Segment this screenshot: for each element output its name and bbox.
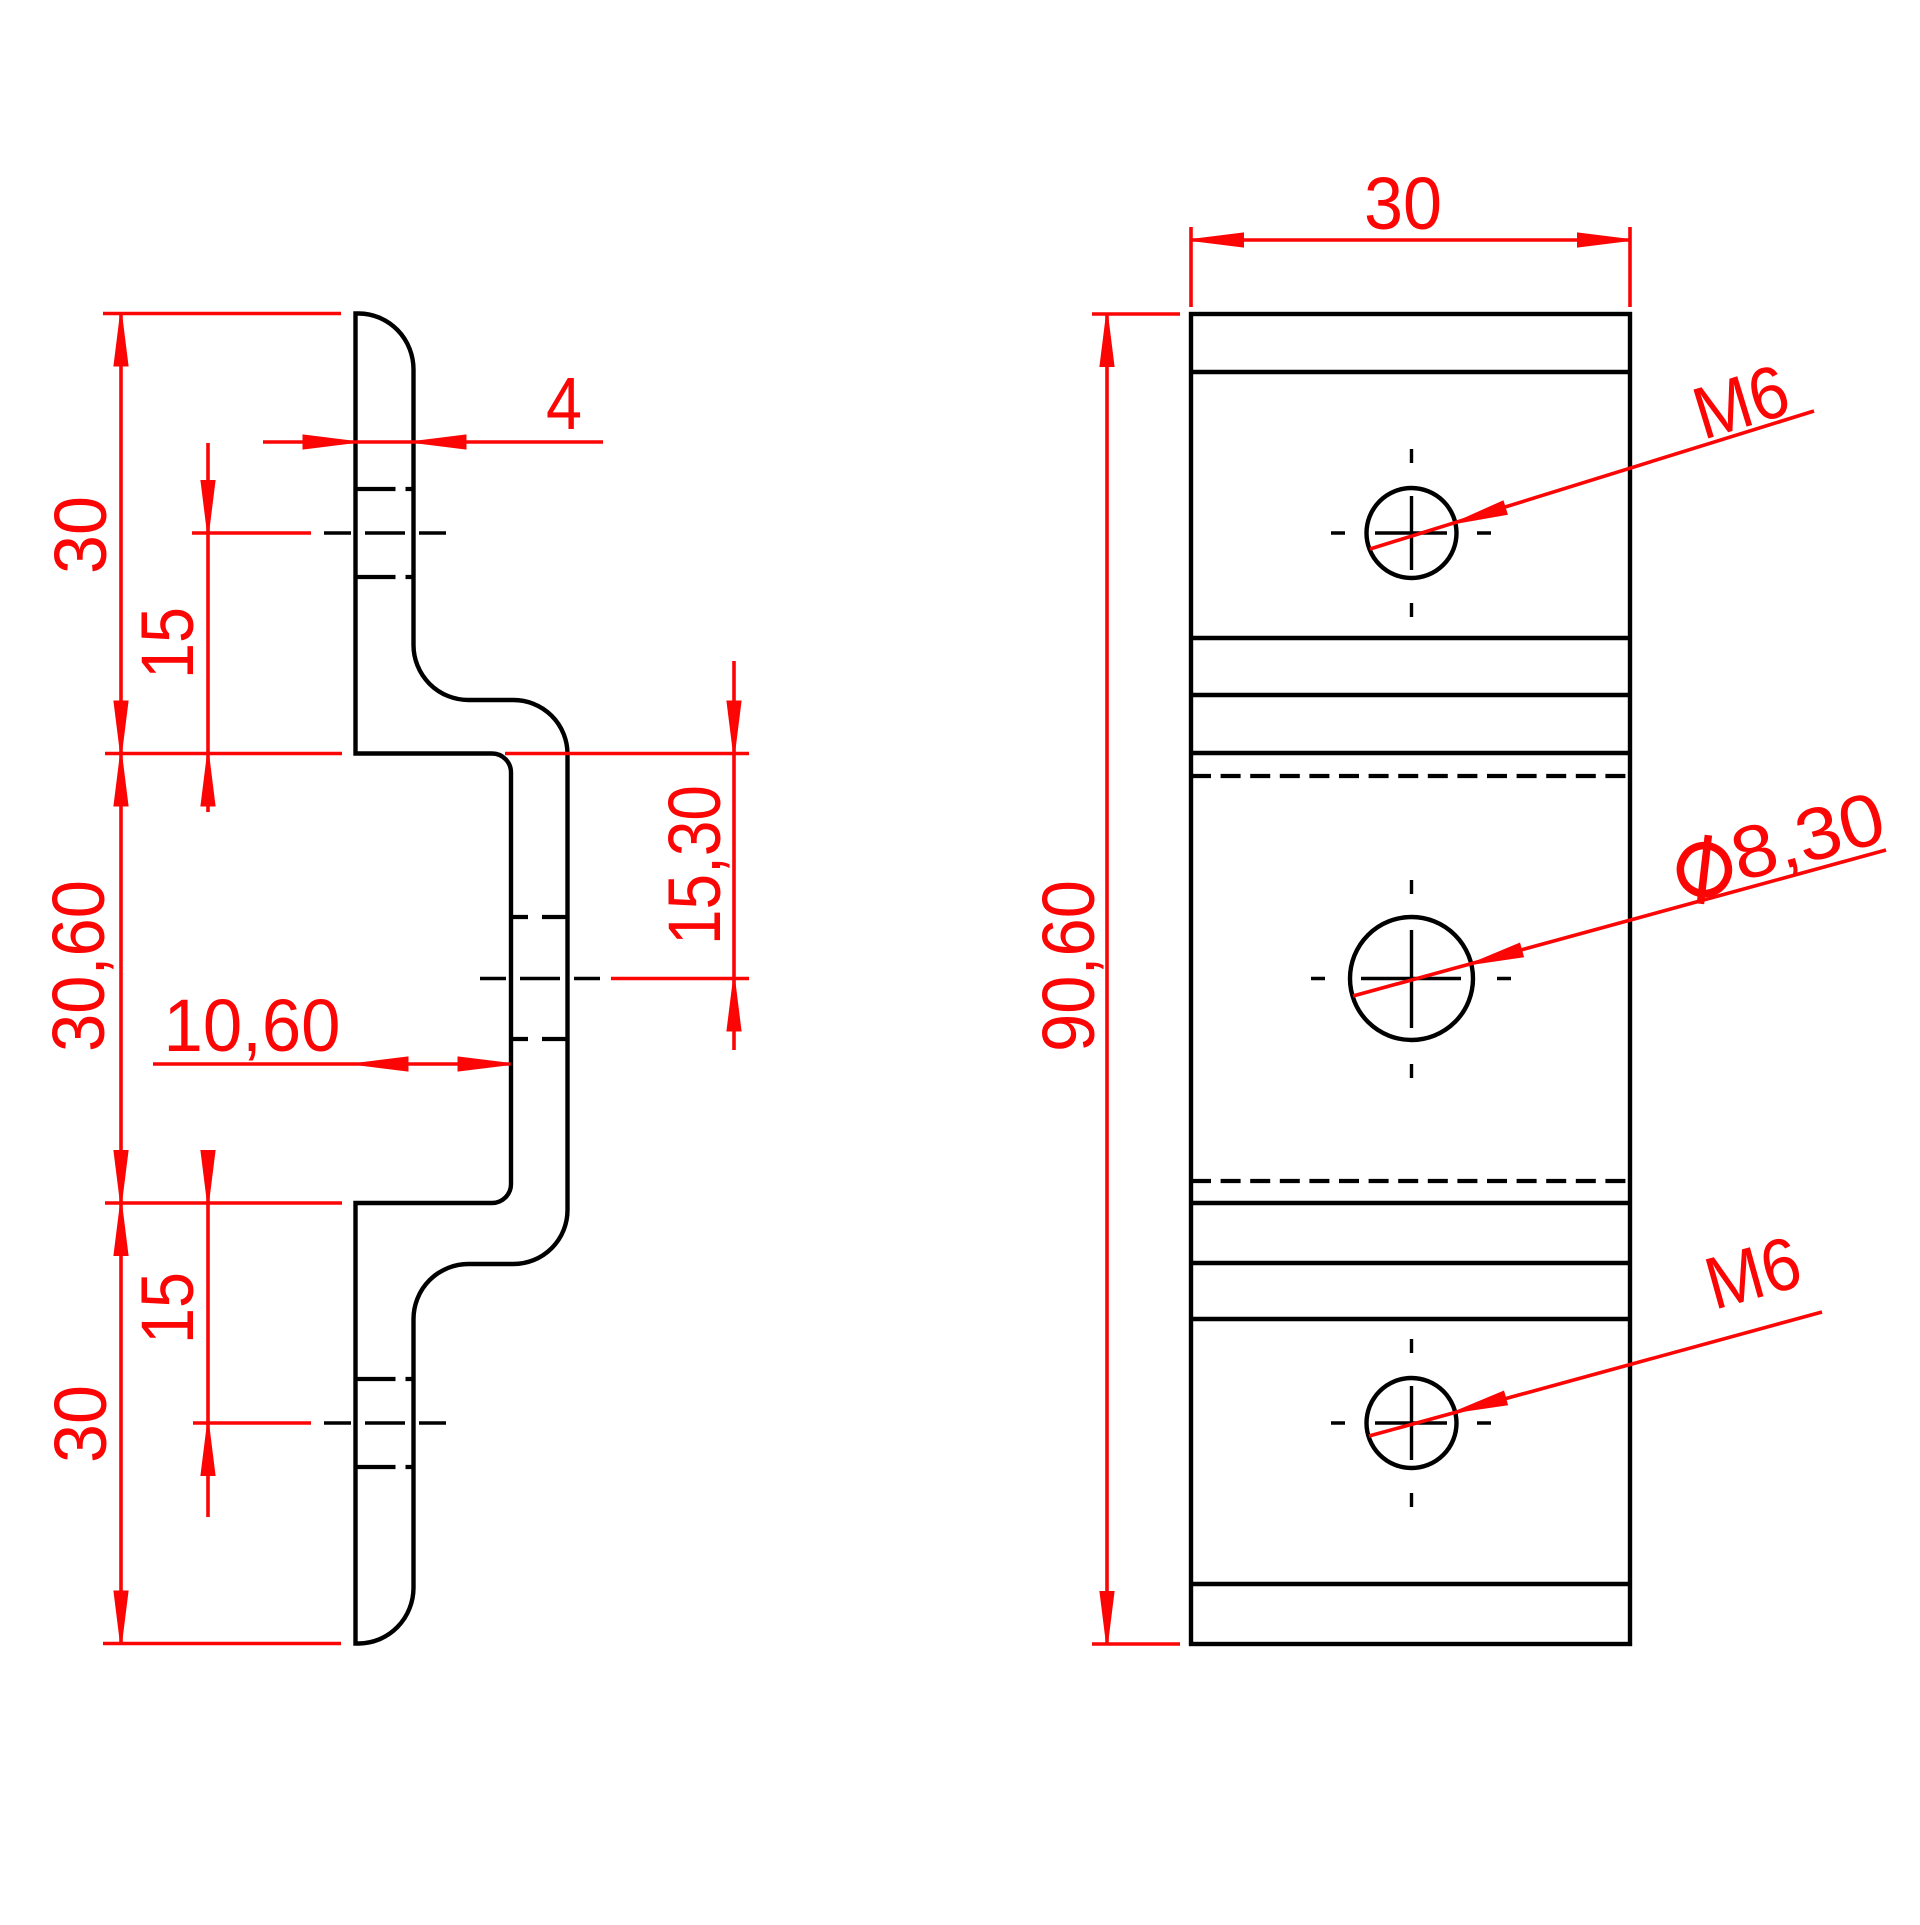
bend tangent line upper A <box>1191 636 1630 640</box>
arrow 30top upper <box>115 314 128 366</box>
arrow leader M6 top <box>1453 502 1507 530</box>
arrow 15up top (outside, points down) <box>202 481 215 533</box>
lower hole hidden edge (bottom) <box>356 1465 414 1469</box>
arrow 4 left (outside, points right) <box>304 436 356 449</box>
bend tangent line upper C <box>1191 751 1630 755</box>
middle hole centerline horizontal <box>1311 977 1511 980</box>
svg-text:90,60: 90,60 <box>1027 880 1110 1052</box>
text diameter 8,30 (rotated leader) <box>1669 776 1894 912</box>
lower hole centerline <box>324 1421 446 1424</box>
arrow 30R left <box>1191 234 1243 247</box>
bend tangent line lower A <box>1191 1317 1630 1321</box>
svg-text:30: 30 <box>1364 162 1442 245</box>
dimension line 30 / 30,60 / 30 column <box>119 314 123 1644</box>
lower hole hidden edge (top) <box>356 1377 414 1381</box>
arrow leader M6 bottom <box>1453 1392 1507 1418</box>
extension line upper hole center <box>192 531 311 535</box>
arrow 15low top (outside, points down) <box>202 1151 215 1203</box>
svg-text:10,60: 10,60 <box>164 984 341 1067</box>
arrow 15,30 bottom (outside, points up) <box>728 979 741 1031</box>
extension line bottom edge left view <box>103 1642 341 1646</box>
extension line step2 <box>105 1201 342 1205</box>
dimension line 4 <box>263 440 603 444</box>
bottom M6 hole <box>1367 1378 1457 1468</box>
arrow leader 8,30 <box>1469 944 1523 970</box>
hidden bend line lower (dashed) <box>1191 1179 1630 1183</box>
extension line step1 left <box>105 752 342 756</box>
middle hole 8.30 <box>1350 917 1473 1040</box>
leader line diameter 8,30 <box>1353 850 1886 996</box>
leader line M6 bottom <box>1369 1312 1822 1436</box>
arrow 30top lower <box>115 702 128 754</box>
arrow 15,30 top (outside, points down) <box>728 702 741 754</box>
top M6 hole centerline horizontal <box>1331 531 1491 534</box>
svg-text:15: 15 <box>126 607 209 679</box>
svg-text:30,60: 30,60 <box>37 880 120 1052</box>
arrow 30bot lower <box>115 1592 128 1644</box>
middle hole hidden edge (top) <box>511 915 568 919</box>
leader line M6 top <box>1370 411 1814 549</box>
upper hole hidden edge (bottom) <box>356 575 414 579</box>
extension line lower hole center <box>193 1421 311 1425</box>
bottom M6 hole centerline vertical <box>1410 1339 1413 1507</box>
dimension line 15 upper <box>206 443 210 812</box>
bottom M6 hole centerline horizontal <box>1331 1421 1491 1424</box>
bend tangent line upper B <box>1191 693 1630 697</box>
arrow 4 right (outside, points left) <box>414 436 466 449</box>
arrow 15low bottom (outside, points up) <box>202 1423 215 1475</box>
svg-text:15,30: 15,30 <box>653 785 736 945</box>
middle hole centerline vertical <box>1410 880 1413 1078</box>
arrow 10,60 left (inside, points left) <box>356 1058 408 1071</box>
top M6 hole <box>1367 488 1457 578</box>
upper hole hidden edge (top) <box>356 487 414 491</box>
bracket side-profile outline <box>356 314 568 1644</box>
arrow 90,60 top <box>1101 314 1114 366</box>
dimension line 10,60 <box>153 1062 511 1066</box>
extension line 90,60 bottom <box>1092 1642 1180 1646</box>
middle hole hidden edge (bottom) <box>511 1037 568 1041</box>
middle hole centerline <box>480 977 600 980</box>
extension line top edge left view <box>103 312 341 316</box>
dimension line 15,30 <box>732 661 736 1050</box>
svg-text:4: 4 <box>546 362 582 445</box>
edge line top thickness tangent <box>1191 370 1630 374</box>
arrow 30,60 lower <box>115 1151 128 1203</box>
arrow 30bot upper <box>115 1203 128 1255</box>
arrowheads <box>115 234 1631 1645</box>
extension line step1 right (for 15,30) <box>505 752 749 756</box>
upper hole centerline <box>324 531 446 534</box>
extension line right view width right <box>1628 227 1632 307</box>
dimension line 15 lower <box>206 1150 210 1517</box>
arrow 15up bottom (outside, points up) <box>202 754 215 806</box>
dimension line 90,60 <box>1105 314 1109 1644</box>
bend tangent line lower B <box>1191 1261 1630 1265</box>
hidden bend line upper (dashed) <box>1191 774 1630 778</box>
extension line 90,60 top <box>1092 312 1180 316</box>
svg-text:30: 30 <box>39 496 122 574</box>
edge line bottom thickness tangent <box>1191 1582 1630 1586</box>
plate outline <box>1191 314 1630 1644</box>
svg-text:30: 30 <box>39 1385 122 1463</box>
extension line right view width left <box>1189 227 1193 307</box>
top M6 hole centerline vertical <box>1410 449 1413 617</box>
dimension line 30 width right view <box>1191 238 1630 242</box>
svg-text:15: 15 <box>126 1272 209 1344</box>
arrow 90,60 bottom <box>1101 1592 1114 1644</box>
bend tangent line lower C <box>1191 1201 1630 1205</box>
extension line middle hole center <box>611 977 749 981</box>
arrow 10,60 right (inside, points right) <box>459 1058 511 1071</box>
arrow 30,60 upper <box>115 754 128 806</box>
arrow 30R right <box>1578 234 1630 247</box>
